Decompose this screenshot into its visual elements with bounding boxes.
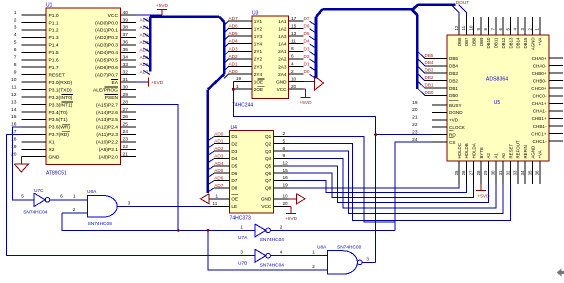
svg-text:AD7: AD7 [214,183,224,188]
svg-text:1: 1 [14,10,17,16]
svg-text:P1.0: P1.0 [49,13,59,19]
svg-text:40: 40 [123,10,129,16]
svg-text:DB13: DB13 [508,37,513,49]
wire U3 output-enable pins 19,1 to ADS RD line and U8A output [233,82,375,263]
svg-text:(AD4)P0.4: (AD4)P0.4 [95,50,118,56]
svg-text:D4: D4 [231,156,237,161]
svg-text:P1.6: P1.6 [49,58,59,64]
svg-text:Q6: Q6 [265,171,272,176]
bus entries U3 left to AD bus [224,21,228,78]
svg-text:SN74HC04: SN74HC04 [23,209,48,215]
svg-text:GND: GND [276,79,287,84]
svg-text:11: 11 [291,39,296,45]
svg-text:2: 2 [73,207,76,212]
svg-text:2A2: 2A2 [278,57,287,62]
svg-text:1A3: 1A3 [278,34,287,39]
svg-text:SN74HC04: SN74HC04 [260,237,285,243]
svg-text:(A15)P2.7: (A15)P2.7 [96,102,118,108]
ground symbol at U1 GND pin20 [14,157,28,172]
wire P3.7 RD to U7B inverter [7,134,255,255]
svg-text:19: 19 [283,183,289,189]
svg-text:RD: RD [449,132,456,137]
svg-text:U8A: U8A [317,245,327,251]
svg-text:5: 5 [283,139,286,145]
wire Q7 to ADS HOLDA [289,180,467,192]
microcontroller U1 AT89C51 [11,3,136,177]
svg-text:20: 20 [412,107,418,113]
svg-text:CHA1-: CHA1- [533,109,547,114]
net labels AD0-AD7 on U4 inputs [214,131,224,187]
wire Q4 to ADS A1 [289,158,496,207]
svg-text:+5VD: +5VD [477,194,490,200]
svg-text:35: 35 [123,47,129,53]
svg-text:20: 20 [283,201,289,206]
svg-text:30: 30 [491,170,496,175]
junction at U3 OE pins [232,88,235,91]
svg-text:8: 8 [291,46,294,52]
svg-text:32: 32 [123,69,129,75]
svg-text:D7: D7 [304,16,310,21]
svg-text:ALE/PROG: ALE/PROG [93,87,118,93]
svg-text:D3: D3 [304,46,310,51]
svg-text:P1.7: P1.7 [49,65,59,71]
svg-text:1Y4: 1Y4 [254,42,263,47]
svg-text:37: 37 [123,32,129,38]
svg-text:(AD1)P0.1: (AD1)P0.1 [95,28,118,34]
inverter U7B 74HC04 [238,249,284,268]
svg-text:CHB0-: CHB0- [533,78,547,83]
svg-text:2: 2 [283,131,286,137]
svg-text:AD1: AD1 [229,61,239,66]
svg-text:(AD6)P0.6: (AD6)P0.6 [95,65,118,71]
svg-text:+VA: +VA [538,37,543,45]
svg-text:P3.1(TXD): P3.1(TXD) [49,87,72,93]
mouse cursor mark [557,269,564,277]
svg-text:CHA0+: CHA0+ [532,56,547,61]
svg-text:U6A: U6A [87,189,97,195]
svg-text:DB1: DB1 [449,86,458,91]
wire U7B output to U8A input [270,249,327,255]
inverter U7C 74HC04 [21,188,63,215]
svg-text:P3.0(RXD): P3.0(RXD) [49,80,73,86]
svg-text:18: 18 [11,137,17,143]
svg-text:D3: D3 [231,149,237,154]
svg-text:(A13)P2.5: (A13)P2.5 [96,117,118,123]
svg-text:1Y1: 1Y1 [254,19,263,24]
svg-text:CHB1-: CHB1- [533,124,547,129]
svg-text:CLOCK: CLOCK [449,125,466,130]
svg-text:11: 11 [11,84,16,90]
svg-text:29: 29 [483,170,488,175]
svg-text:P3.5(T1): P3.5(T1) [49,117,68,123]
svg-text:DOUT: DOUT [456,0,470,6]
wire Q5 to ADS A2 [289,166,489,203]
svg-text:P3.4(T0): P3.4(T0) [49,110,68,116]
svg-text:9: 9 [283,153,286,159]
wire U7C output to U6A input [50,194,88,200]
power +5VD at U1 EA pin31 [136,78,164,87]
svg-text:P1.4: P1.4 [49,43,59,49]
svg-text:39: 39 [123,17,129,23]
svg-text:AD6: AD6 [214,175,224,180]
svg-text:RESET: RESET [49,72,65,78]
svg-text:31: 31 [123,77,129,83]
wire gate net line A [62,213,255,231]
svg-text:1A4: 1A4 [278,42,287,47]
bus entries U1 P0 to AD bus [144,18,151,74]
svg-text:SN74HC00: SN74HC00 [337,245,362,251]
svg-text:DB5: DB5 [449,56,458,61]
svg-text:D8: D8 [231,186,237,191]
svg-text:CHB1+: CHB1+ [532,116,547,121]
svg-text:AGND: AGND [530,38,535,51]
svg-text:29: 29 [123,92,129,98]
svg-text:DB11: DB11 [494,37,499,48]
svg-text:DB8: DB8 [472,37,477,46]
svg-text:GND: GND [261,197,272,202]
svg-text:33: 33 [123,62,129,68]
svg-text:1Y3: 1Y3 [254,34,263,39]
svg-text:D1: D1 [304,61,310,66]
svg-text:U5: U5 [494,100,501,106]
svg-text:DB14: DB14 [516,37,521,49]
svg-text:+VA: +VA [538,150,543,158]
bus AD vertical at U3 side [208,22,224,193]
svg-text:2Y4: 2Y4 [254,72,263,77]
bus AD top horizontal [150,17,224,22]
svg-text:25: 25 [454,170,459,175]
wire Q1 to ADS CS net [289,136,395,222]
svg-text:P1.1: P1.1 [49,20,59,26]
power +5VD at U1 VCC [156,3,169,9]
svg-text:DB0: DB0 [449,93,458,98]
svg-text:(AD5)P0.5: (AD5)P0.5 [95,58,118,64]
svg-text:7: 7 [14,55,17,61]
svg-text:15: 15 [291,23,297,29]
svg-text:23: 23 [123,137,129,143]
svg-text:+VD: +VD [449,118,459,123]
svg-text:CHC1-: CHC1- [532,139,547,144]
svg-text:10: 10 [291,76,297,81]
wire Q6 to ADS BYTE [289,173,474,197]
svg-text:+5VD: +5VD [285,216,298,222]
svg-text:Q3: Q3 [265,149,272,154]
bus AD vertical at U1 side [149,17,152,72]
svg-text:+5VD: +5VD [151,80,164,86]
no-connect arrow at U4 OE pin1 [201,194,210,204]
wire U7A output to CS riser [270,229,394,231]
svg-text:AD5: AD5 [229,31,239,36]
svg-text:2: 2 [291,69,294,75]
svg-text:CHC0-: CHC0- [532,94,547,99]
svg-text:34: 34 [123,55,129,61]
svg-text:+5VD: +5VD [156,3,169,9]
svg-text:AD6: AD6 [229,24,239,29]
wire Q3 to ADS A0 [289,151,504,213]
wire U8A lower input from gate net [208,230,328,269]
wire Q2 to ADS RESET [289,144,511,221]
svg-text:21: 21 [123,152,129,158]
svg-text:10: 10 [11,77,17,83]
svg-text:P1.3: P1.3 [49,35,59,41]
svg-text:+5VD: +5VD [299,100,312,106]
svg-text:8: 8 [14,62,17,68]
svg-text:5: 5 [14,40,17,46]
svg-text:1A2: 1A2 [278,26,287,31]
svg-text:15: 15 [283,168,289,174]
wire U6A output to U4 LE pin11 [117,205,210,207]
svg-text:AGND: AGND [530,146,535,159]
wire U6A lower input from gate net [62,212,87,214]
svg-text:DB10: DB10 [486,37,491,49]
svg-text:2A4: 2A4 [278,72,287,77]
svg-text:2: 2 [14,17,17,23]
svg-text:DGND: DGND [449,110,463,115]
svg-text:U7C: U7C [34,188,44,194]
svg-text:AT89C51: AT89C51 [46,171,67,177]
svg-text:D2: D2 [304,54,310,59]
svg-text:OE: OE [231,197,238,202]
svg-text:74HC373: 74HC373 [230,216,251,222]
svg-text:SN74HC04: SN74HC04 [260,263,285,269]
svg-text:5: 5 [21,194,24,199]
svg-text:AD4: AD4 [229,39,239,44]
svg-text:Q4: Q4 [265,156,272,161]
svg-text:20: 20 [11,152,17,158]
svg-text:AD5: AD5 [214,168,224,173]
junction at A15 riser and line A [177,229,180,232]
svg-text:27: 27 [123,107,129,113]
svg-text:20: 20 [291,84,297,89]
svg-text:CS: CS [449,140,455,145]
svg-text:12: 12 [11,92,17,98]
svg-text:2Y1: 2Y1 [254,49,263,54]
svg-text:(AD7)P0.7: (AD7)P0.7 [95,72,118,78]
svg-text:11: 11 [213,201,218,206]
svg-text:U7B: U7B [238,261,247,267]
svg-text:DB4: DB4 [425,60,434,65]
svg-text:A0: A0 [501,153,506,159]
svg-text:19: 19 [412,100,418,106]
svg-text:26: 26 [123,114,129,120]
power +5VD at ADS BYTE pin [476,184,490,200]
svg-text:HOLDC: HOLDC [457,143,462,158]
svg-text:D6: D6 [231,171,237,176]
svg-text:2: 2 [312,264,315,269]
svg-text:(AD3)P0.3: (AD3)P0.3 [95,43,118,49]
svg-text:6: 6 [60,194,63,199]
svg-text:26: 26 [461,170,466,175]
power GND arrow at U4 pin10 [289,194,305,204]
svg-text:Q1: Q1 [265,134,272,139]
svg-text:DB6: DB6 [457,37,462,46]
svg-text:13: 13 [11,99,17,105]
svg-text:28: 28 [123,99,129,105]
svg-text:1OE: 1OE [254,79,263,84]
svg-text:DB2: DB2 [449,78,458,83]
svg-text:U7A: U7A [238,235,248,241]
svg-text:DB3: DB3 [425,68,434,73]
svg-text:BUSY: BUSY [449,103,462,108]
svg-text:(A9)P2.1: (A9)P2.1 [99,147,119,153]
svg-text:X2: X2 [49,147,55,153]
svg-text:DB1: DB1 [425,82,434,87]
net labels D7-D0 on U3 outputs [304,16,310,74]
svg-text:A1: A1 [494,153,499,159]
svg-text:AD3: AD3 [214,153,224,158]
svg-text:3: 3 [366,256,369,261]
svg-text:15: 15 [11,114,17,120]
svg-text:VCC: VCC [277,87,288,92]
svg-text:3: 3 [128,200,131,205]
bus entries U4 left to AD bus [208,137,214,192]
svg-text:6: 6 [283,146,286,152]
svg-text:3: 3 [14,25,17,31]
bus D from U3 to ADS8364 [316,5,456,89]
svg-text:CHA1+: CHA1+ [532,101,547,106]
svg-text:D5: D5 [231,164,237,169]
svg-text:VCC: VCC [261,204,272,209]
svg-text:19: 19 [11,144,17,150]
svg-text:DB3: DB3 [449,71,458,76]
svg-text:D6: D6 [304,24,310,29]
svg-text:U4: U4 [231,125,238,131]
svg-text:30: 30 [123,84,129,90]
net labels AD0-AD7 on U1 port0 pins [140,17,150,74]
svg-text:P3.6(WR): P3.6(WR) [49,125,71,131]
svg-text:12: 12 [454,25,459,30]
ADC U5 ADS8364 body [412,17,563,184]
wire P3.6 WR to U7C inverter [13,127,35,200]
svg-text:U3: U3 [252,11,259,17]
svg-text:2OE: 2OE [254,87,263,92]
svg-text:AD2: AD2 [229,54,239,59]
svg-text:P1.5: P1.5 [49,50,59,56]
power +5VD at U3 VCC pin20 [299,89,312,106]
svg-text:34: 34 [520,170,525,175]
power +5VD at U4 VCC pin20 [285,206,298,222]
svg-text:P3.2(INT0): P3.2(INT0) [49,95,73,101]
nand-gate U8A 74HC00 [312,245,369,275]
svg-text:74HC244: 74HC244 [232,103,253,109]
inverter U7A 74HC04 [238,224,284,243]
svg-text:AD7: AD7 [229,16,239,21]
power GND arrow at U3 pin10 [304,76,324,90]
svg-text:10: 10 [469,25,474,30]
svg-text:2A1: 2A1 [278,49,287,54]
svg-text:2A3: 2A3 [278,64,287,69]
svg-text:(A11)P2.3: (A11)P2.3 [96,132,118,138]
svg-text:CHC0+: CHC0+ [531,86,547,91]
svg-text:1: 1 [312,249,315,254]
svg-text:P1.2: P1.2 [49,28,59,34]
svg-text:28: 28 [476,170,481,175]
svg-text:35: 35 [527,170,532,175]
svg-text:DB12: DB12 [501,37,506,49]
and-gate U6A 74HC08 [73,189,131,227]
svg-text:(A8)P2.0: (A8)P2.0 [99,155,119,161]
svg-text:CHB0+: CHB0+ [532,71,547,76]
svg-text:22: 22 [412,122,418,128]
svg-text:1: 1 [236,84,239,89]
svg-text:10: 10 [283,194,289,199]
wire ADS RD from U3 OE line [376,134,432,136]
svg-text:1: 1 [240,225,243,230]
svg-text:4: 4 [280,249,283,254]
svg-text:13: 13 [291,31,297,37]
svg-text:CHC1+: CHC1+ [531,131,547,136]
svg-text:D1: D1 [231,134,237,139]
svg-text:6: 6 [291,54,294,60]
svg-text:16: 16 [283,175,289,181]
svg-text:36: 36 [535,170,540,175]
svg-text:AD4: AD4 [214,161,224,166]
wire VCC pin40 to +5VD [136,10,162,16]
svg-text:U1: U1 [46,3,53,9]
svg-text:GND: GND [49,155,60,161]
svg-text:DB7: DB7 [464,37,469,46]
bus entries ADS left to D bus [418,52,425,96]
svg-text:24: 24 [123,129,129,135]
svg-text:RESET: RESET [508,144,513,159]
svg-text:(AD0)P0.0: (AD0)P0.0 [95,20,118,26]
wire U8A output to OE/RD vertical [362,261,376,263]
svg-text:25: 25 [123,122,129,128]
svg-text:A2: A2 [486,153,491,159]
svg-text:AD0: AD0 [214,131,224,136]
svg-text:3: 3 [240,249,243,254]
svg-text:1A1: 1A1 [278,19,287,24]
svg-text:DB2: DB2 [425,75,434,80]
svg-text:31: 31 [498,170,503,175]
svg-text:38: 38 [123,25,129,31]
svg-text:P3.7(RD): P3.7(RD) [49,132,70,138]
svg-text:DB15: DB15 [523,37,528,49]
svg-text:1: 1 [216,193,219,198]
svg-text:D7: D7 [231,178,237,183]
svg-text:DB9: DB9 [479,37,484,46]
svg-text:D4: D4 [304,39,310,44]
svg-text:Q8: Q8 [265,186,272,191]
svg-text:2Y3: 2Y3 [254,64,263,69]
bus entries to ADS top pins DB6 DB7 [451,5,466,17]
svg-text:LE: LE [231,204,237,209]
svg-text:4: 4 [291,61,294,67]
svg-text:AD2: AD2 [214,146,224,151]
svg-text:PSEN: PSEN [105,95,119,101]
bus entries U3 right to D bus [310,21,316,78]
svg-text:(A14)P2.6: (A14)P2.6 [96,110,118,116]
svg-text:AD0: AD0 [229,69,239,74]
svg-text:4: 4 [14,32,17,38]
svg-text:22: 22 [123,144,129,150]
svg-text:D2: D2 [231,142,237,147]
svg-text:2: 2 [280,225,283,230]
svg-text:BYTE: BYTE [479,147,484,159]
svg-text:12: 12 [283,161,289,167]
svg-text:1: 1 [73,194,76,199]
svg-text:DB0: DB0 [425,90,434,95]
svg-text:33: 33 [513,170,518,175]
svg-text:9: 9 [14,69,17,75]
svg-text:ADS8364: ADS8364 [486,77,508,83]
svg-text:HOLDA: HOLDA [472,143,477,158]
svg-text:1Y2: 1Y2 [254,26,263,31]
svg-text:VCC: VCC [108,13,119,19]
svg-text:HOLDB: HOLDB [464,143,469,158]
net labels AD7-AD0 on U3 inputs [229,16,239,74]
svg-text:36: 36 [123,40,129,46]
